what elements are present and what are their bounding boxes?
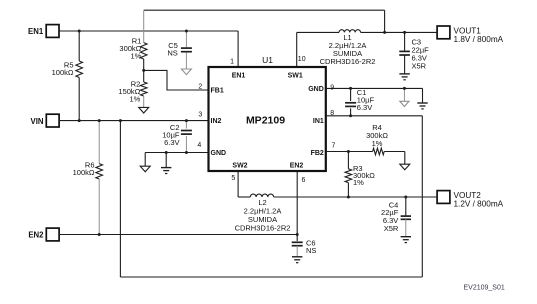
ground arrow below C5 [181,69,191,75]
pin 8 IN1 label [313,110,334,125]
svg-text:1.8V / 800mA: 1.8V / 800mA [454,35,504,44]
resistor R5 100k [52,31,83,121]
node C4/VOUT2 junction [404,196,407,199]
svg-text:1%: 1% [353,178,364,187]
resistor R3 300k [345,152,375,198]
terminal VIN [31,114,60,127]
wire pin9 GND [326,87,423,89]
node VOUT1/C3 junction [403,31,406,34]
wire SW1 pin10 to L1 [297,32,339,66]
svg-text:X5R: X5R [384,224,399,233]
svg-text:EN1: EN1 [232,72,246,79]
wire pin4 GND down to arrow ground [144,153,146,167]
pin 3 IN2 label [198,111,221,125]
node FB2 junction [347,150,350,153]
node GND/earth junction [165,151,168,154]
svg-text:6.3V: 6.3V [357,103,372,112]
node VIN branch junction [119,119,122,122]
wire right side up to pin8 IN1 [326,116,423,277]
svg-text:EN2: EN2 [28,231,44,240]
node VIN/C2 junction [185,119,188,122]
svg-text:CDRH3D16-2R2: CDRH3D16-2R2 [235,223,291,232]
node VIN/R5 junction [78,119,81,122]
wire bottom rail VIN to IN1 [120,276,422,278]
op-amp U1 MP2109 IC body [209,55,326,171]
capacitor C1 10uF [345,88,374,116]
svg-text:100kΩ: 100kΩ [52,68,74,77]
wire R4 to ground arrow [384,152,405,165]
svg-text:4: 4 [197,142,201,149]
svg-text:FB1: FB1 [211,88,224,95]
node FB1/R1/R2 junction [142,69,145,72]
wire L2 to VOUT2 terminal [274,196,438,198]
resistor R6 100k [73,121,103,235]
inductor L1 2.2uH [320,30,376,66]
node R3/VOUT2 junction [347,196,350,199]
svg-text:VIN: VIN [31,117,44,126]
svg-text:1%: 1% [372,139,383,148]
pin 7 FB2 label [311,143,336,157]
wire VOUT1 top rail from R1 top [144,10,385,32]
pin 10 SW1 label [288,56,306,79]
node VIN/R6 junction [98,119,101,122]
wire pin2 FB1 jog [144,70,209,90]
pin 5 SW2 label [231,162,247,182]
terminal VOUT1 [437,26,504,44]
wire L1 to VOUT1 terminal [361,31,438,33]
svg-text:CDRH3D16-2R2: CDRH3D16-2R2 [320,57,376,66]
svg-text:6.3V: 6.3V [164,138,179,147]
capacitor C2 10uF [162,121,192,153]
svg-text:NS: NS [306,246,316,255]
svg-text:NS: NS [167,49,177,58]
terminal VOUT2 [437,191,504,209]
svg-text:2: 2 [198,83,202,90]
wire EN2 terminal to pin6 [59,234,297,236]
node GND/C2 junction [185,151,188,154]
ground arrow below R2 [139,107,149,113]
node IN1/C1 junction [349,114,352,117]
wire pin9 GND down to earth [422,88,424,102]
wire VIN to pin3 IN2 [59,120,209,122]
capacitor C6 NS [292,235,317,257]
svg-text:SW1: SW1 [288,72,303,79]
svg-text:5: 5 [231,175,235,182]
resistor R4 300k [366,123,388,155]
earth ground below C3 [399,73,409,75]
terminal EN2 [28,228,59,241]
resistor R1 300k [119,10,147,70]
capacitor C3 22uF [399,32,429,73]
wire pin7 FB2 [326,151,373,153]
wire VIN down left side [119,121,121,277]
svg-text:3: 3 [198,111,202,118]
svg-text:EV2109_S01: EV2109_S01 [464,285,505,292]
earth ground right end of pin9 wire [417,102,427,104]
earth ground below C6 [292,256,302,258]
svg-text:U1: U1 [262,55,273,65]
svg-text:100kΩ: 100kΩ [73,168,95,177]
resistor R2 150k [118,70,147,107]
earth ground on pin4 wire [161,153,171,174]
svg-text:EN1: EN1 [28,27,44,36]
wire pin6 EN2 down [296,172,298,235]
svg-text:X5R: X5R [412,61,427,70]
wire pin4 GND [145,152,208,154]
pin 1 EN1 label [230,58,245,79]
node EN1/C5 junction [185,30,188,33]
svg-text:9: 9 [330,84,334,91]
svg-text:10: 10 [298,56,306,63]
terminal EN1 [28,25,59,38]
inductor L2 2.2uH [235,194,291,232]
capacitor C4 22uF [381,197,411,236]
svg-text:SW2: SW2 [232,162,247,169]
wire pin5 SW2 to L2 [238,172,250,197]
svg-text:GND: GND [211,150,227,157]
svg-text:6: 6 [302,177,306,184]
ground arrow on pin9 GND net [400,88,409,106]
node pin9 ground junction [403,87,406,90]
svg-text:1%: 1% [129,95,140,104]
svg-text:8: 8 [330,110,334,117]
ground arrow right of R4 [400,164,410,170]
svg-text:FB2: FB2 [311,150,324,157]
svg-text:1: 1 [230,58,234,65]
pin 9 GND label [308,84,334,93]
node EN2/R6 junction [98,233,101,236]
svg-text:1.2V / 800mA: 1.2V / 800mA [454,199,504,208]
svg-text:GND: GND [308,86,324,93]
node VOUT1 rail junction [383,31,386,34]
svg-text:EN2: EN2 [290,162,304,169]
capacitor C5 NS [167,31,192,69]
svg-text:7: 7 [332,143,336,150]
pin 6 EN2 label [290,162,306,183]
pin 4 GND label [197,142,226,157]
svg-text:IN2: IN2 [211,118,222,125]
svg-text:1%: 1% [130,52,141,61]
svg-text:IN1: IN1 [313,118,324,125]
pin 2 FB1 label [198,83,223,94]
svg-text:MP2109: MP2109 [246,115,285,127]
node GND/C1 junction [349,87,352,90]
node EN1/R5 junction [78,30,81,33]
node EN2/C6 junction [296,233,299,236]
ground arrow left end of pin4 wire [140,166,150,172]
earth ground below C4 [401,236,411,238]
wire EN1 to pin1 [59,31,238,67]
